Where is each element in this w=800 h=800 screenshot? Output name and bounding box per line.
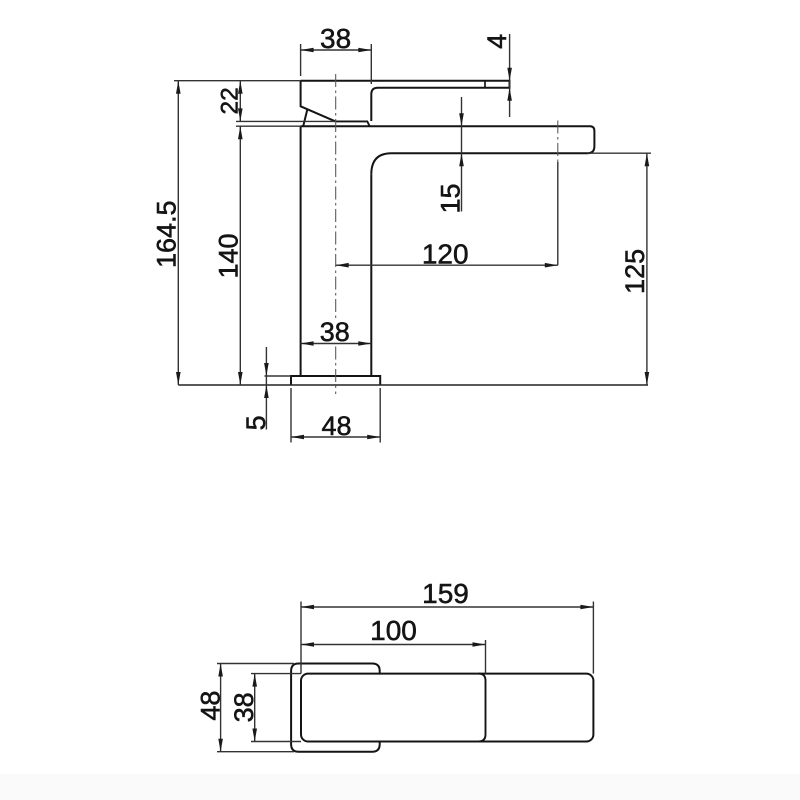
dimension 164.5 xyxy=(176,81,181,385)
svg-text:15: 15 xyxy=(436,183,466,213)
svg-text:48: 48 xyxy=(321,411,351,441)
body left edge xyxy=(300,126,302,376)
svg-text:120: 120 xyxy=(422,239,469,270)
dimension 15 xyxy=(459,97,464,212)
spout centerline xyxy=(557,121,559,163)
dimension 38 (plan) xyxy=(251,674,301,742)
dimension 38 (body width, side view lower) xyxy=(301,341,372,346)
spout/body outline (plan) xyxy=(301,674,593,742)
base bottom long line xyxy=(178,384,648,386)
dimension 48 (base width, side view) xyxy=(291,388,380,443)
svg-text:38: 38 xyxy=(229,692,259,722)
dimension 5 xyxy=(264,347,291,430)
dimension 22 xyxy=(174,81,335,122)
svg-text:140: 140 xyxy=(213,233,243,278)
spout top / cap bottom line and spout right end xyxy=(301,126,595,174)
body centerline xyxy=(335,74,337,318)
base plate xyxy=(291,376,380,385)
svg-text:38: 38 xyxy=(320,23,351,54)
svg-text:159: 159 xyxy=(422,578,469,609)
svg-text:164.5: 164.5 xyxy=(152,200,182,268)
body right edge xyxy=(370,174,372,376)
handle right end (plan view) xyxy=(478,674,485,742)
svg-text:125: 125 xyxy=(620,249,650,294)
base square (plan) xyxy=(291,664,380,752)
dimension 48 (plan) xyxy=(217,664,294,752)
dimension 100 xyxy=(301,640,486,674)
dimension 38 (top) xyxy=(301,44,372,84)
dimension 140 xyxy=(236,126,301,385)
lever divider line xyxy=(484,81,486,88)
svg-text:4: 4 xyxy=(482,34,512,49)
svg-text:38: 38 xyxy=(320,317,350,347)
cap top line xyxy=(336,121,370,126)
dimension 4 (lever tip) xyxy=(507,34,512,117)
svg-text:48: 48 xyxy=(195,691,225,721)
dimension 125 xyxy=(587,153,651,385)
dimension 159 xyxy=(301,602,593,674)
bottom gray band xyxy=(0,774,800,800)
dimension 120 xyxy=(336,263,558,268)
svg-text:5: 5 xyxy=(241,415,271,430)
svg-text:100: 100 xyxy=(370,615,417,646)
svg-text:22: 22 xyxy=(217,87,244,114)
lever handle outline xyxy=(301,81,510,127)
